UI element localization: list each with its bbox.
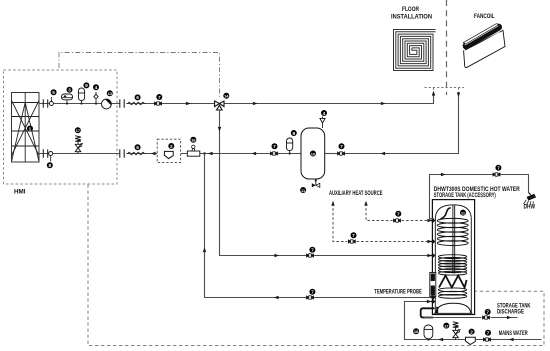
wire dash-dot control line HMI to 3-way valve bbox=[59, 53, 220, 100]
flex connector 6 return bbox=[127, 144, 146, 155]
flow arrow coil supply down bbox=[218, 127, 221, 132]
svg-text:7: 7 bbox=[352, 233, 355, 239]
pump 13 bbox=[102, 90, 113, 109]
text mains water bbox=[499, 331, 528, 337]
text floor installation bbox=[391, 7, 432, 21]
tank upper coil bbox=[437, 218, 468, 245]
svg-text:2: 2 bbox=[170, 144, 173, 150]
pipe DHW coil return bbox=[205, 154, 432, 298]
svg-text:DISCHARGE: DISCHARGE bbox=[497, 309, 524, 315]
flow arrow coil return up bbox=[203, 247, 206, 252]
svg-text:4: 4 bbox=[323, 111, 326, 117]
safety valve 4 buffer bbox=[320, 110, 327, 128]
HMI unit dashed enclosure bbox=[4, 70, 118, 184]
valve 7 coil return bbox=[306, 289, 315, 300]
flow arrow return b bbox=[208, 152, 213, 155]
svg-text:17: 17 bbox=[444, 323, 449, 328]
svg-text:MAINS WATER: MAINS WATER bbox=[499, 331, 528, 337]
arrow aux lower tank inlet bbox=[427, 240, 432, 243]
pressure relief group 17 mains bbox=[443, 322, 460, 340]
svg-text:FANCOIL: FANCOIL bbox=[474, 14, 495, 20]
flow arrow coil supply right bbox=[274, 254, 279, 257]
svg-text:DHW: DHW bbox=[524, 205, 536, 211]
flange heat pump supply bbox=[43, 99, 47, 107]
flange heat pump return bbox=[43, 149, 47, 157]
svg-text:4: 4 bbox=[95, 85, 98, 91]
svg-text:6: 6 bbox=[136, 145, 139, 151]
flow arrow return c bbox=[251, 152, 256, 155]
svg-text:7: 7 bbox=[158, 95, 161, 101]
text DHWT300S tank label bbox=[434, 187, 521, 199]
pipe storage tank discharge bbox=[421, 308, 518, 317]
sensor 8 bbox=[47, 152, 53, 170]
valve 7 mains bbox=[483, 330, 491, 342]
svg-text:17: 17 bbox=[76, 128, 81, 133]
arrow aux lower up bbox=[331, 201, 334, 206]
valve 7 aux lower bbox=[348, 232, 357, 243]
valve 7 coil supply bbox=[306, 247, 315, 258]
tank center pipe bbox=[453, 205, 455, 274]
valve 7 return left bbox=[270, 143, 278, 155]
svg-text:2: 2 bbox=[470, 329, 473, 335]
svg-text:18: 18 bbox=[414, 329, 419, 334]
flex connector 6 supply bbox=[127, 94, 146, 104]
svg-text:5: 5 bbox=[52, 90, 55, 96]
svg-text:7: 7 bbox=[486, 310, 489, 316]
arrow aux upper tank inlet bbox=[427, 219, 432, 222]
floor heating spiral bbox=[394, 30, 436, 71]
svg-text:STORAGE TANK (ACCESSORY): STORAGE TANK (ACCESSORY) bbox=[434, 193, 496, 199]
text storage tank discharge bbox=[497, 303, 531, 315]
node label 1 bbox=[27, 126, 33, 133]
flow switch 16 bbox=[187, 137, 200, 156]
strainer 2 dashed box bbox=[157, 139, 180, 162]
expansion vessel 9 bbox=[78, 82, 89, 104]
pipe DHW coil supply bbox=[220, 110, 432, 255]
arrow mains left a bbox=[509, 338, 514, 341]
svg-text:6: 6 bbox=[136, 95, 139, 101]
svg-text:10: 10 bbox=[311, 151, 316, 156]
svg-text:8: 8 bbox=[48, 163, 51, 169]
expansion vessel 18 mains bbox=[413, 325, 433, 341]
node label 11 tank bbox=[460, 210, 466, 216]
flow arrow return riser down bbox=[457, 92, 460, 97]
svg-text:7: 7 bbox=[340, 144, 343, 150]
svg-text:7: 7 bbox=[311, 248, 314, 254]
svg-text:7: 7 bbox=[397, 212, 400, 218]
pipe aux heat source upper dashed bbox=[366, 204, 429, 221]
DHW tank outer shell bbox=[432, 200, 474, 315]
pipe supply top from heat pump bbox=[39, 94, 434, 104]
expansion vessel 9 buffer bbox=[287, 130, 297, 155]
air separator 3 bbox=[62, 87, 73, 105]
tank lower coil bbox=[438, 255, 466, 299]
text temperature probe bbox=[374, 290, 422, 296]
arrow discharge right bbox=[507, 316, 512, 319]
svg-text:9: 9 bbox=[85, 83, 88, 89]
pipe DHW outlet to shower bbox=[430, 175, 529, 219]
sensor 5 bbox=[49, 89, 56, 105]
text auxiliary heat source bbox=[329, 191, 383, 197]
valve 7 return right bbox=[337, 143, 345, 155]
pipe mains water bbox=[405, 302, 542, 340]
wire dashed divider floor/fancoil bbox=[446, 0, 448, 95]
svg-text:14: 14 bbox=[224, 94, 229, 99]
arrow mains left b bbox=[438, 338, 443, 341]
svg-text:TEMPERATURE PROBE: TEMPERATURE PROBE bbox=[374, 290, 422, 296]
temperature probe pocket bbox=[430, 273, 436, 297]
HMI label bbox=[14, 190, 26, 196]
pipe aux heat source lower dashed bbox=[333, 204, 429, 242]
flow arrow supply riser up bbox=[432, 91, 435, 96]
svg-text:16: 16 bbox=[191, 138, 196, 143]
flange HMI supply bbox=[120, 99, 124, 107]
valve 7 supply bbox=[154, 94, 162, 106]
safety valve 17 bbox=[75, 127, 83, 153]
arrow coil supply tank inlet bbox=[427, 254, 432, 257]
svg-text:13: 13 bbox=[108, 91, 113, 96]
svg-text:FLOOR: FLOOR bbox=[402, 7, 420, 13]
pipe return emitters riser bbox=[341, 94, 459, 154]
text fancoil bbox=[474, 14, 495, 20]
svg-text:INSTALLATION: INSTALLATION bbox=[391, 15, 432, 21]
pipe return from heat pump bbox=[39, 153, 337, 155]
drain valve 11 buffer bbox=[300, 179, 320, 193]
heat pump unit 1 bbox=[12, 93, 40, 163]
shower head DHW bbox=[524, 193, 537, 206]
svg-text:HMI: HMI bbox=[14, 190, 26, 196]
valve 7 discharge bbox=[482, 309, 491, 320]
site boundary dashed border bbox=[88, 185, 544, 346]
flow arrow return a bbox=[151, 152, 156, 155]
svg-text:9: 9 bbox=[292, 131, 295, 137]
flow arrow supply b bbox=[253, 102, 258, 105]
svg-text:AUXILIARY HEAT SOURCE: AUXILIARY HEAT SOURCE bbox=[329, 191, 383, 197]
flow arrow return d bbox=[380, 152, 385, 155]
svg-text:1: 1 bbox=[29, 126, 32, 132]
arrow DHW right bbox=[441, 173, 446, 176]
valve 7 aux upper bbox=[393, 211, 401, 223]
3-way valve 14 bbox=[215, 101, 224, 110]
svg-text:7: 7 bbox=[497, 166, 500, 172]
text DHW bbox=[524, 205, 536, 211]
svg-text:7: 7 bbox=[273, 144, 276, 150]
arrow mains tank inlet bbox=[427, 300, 432, 303]
safety valve 4 bbox=[93, 84, 99, 104]
svg-text:7: 7 bbox=[311, 290, 314, 296]
flow arrow coil return left bbox=[274, 296, 279, 299]
tank outlet dip pipe bbox=[441, 208, 451, 219]
node label 14 bbox=[223, 93, 229, 99]
svg-text:7: 7 bbox=[487, 331, 490, 337]
flange HMI return bbox=[120, 149, 124, 157]
svg-text:3: 3 bbox=[68, 88, 71, 94]
flow arrow supply a bbox=[186, 102, 191, 105]
node junction coil return riser bbox=[203, 152, 205, 154]
emitters dashed header bbox=[425, 88, 465, 95]
strainer 2 mains bbox=[466, 329, 476, 345]
flow arrow supply c bbox=[381, 102, 386, 105]
buffer tank 10 bbox=[301, 128, 325, 179]
arrow aux upper up bbox=[364, 201, 367, 206]
fancoil unit bbox=[462, 24, 505, 68]
tank wall connection fittings bbox=[431, 218, 436, 303]
valve 7 DHW bbox=[493, 165, 502, 177]
tank bottom inlet stub bbox=[436, 307, 438, 314]
